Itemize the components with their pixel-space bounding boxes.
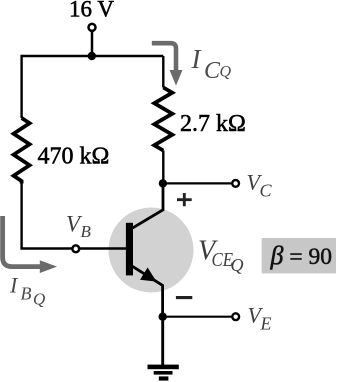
ground bar 2 (154, 371, 173, 375)
transistor emitter arrowhead (140, 268, 157, 282)
node VE terminal circle (232, 313, 239, 320)
ground bar 3 (159, 376, 169, 380)
svg-text:β = 90: β = 90 (270, 241, 332, 270)
svg-text:C: C (204, 58, 221, 84)
svg-text:16 V: 16 V (69, 0, 114, 22)
wire base horizontal (22, 247, 127, 248)
wire supply stub (91, 31, 94, 56)
svg-text:B: B (81, 222, 92, 241)
svg-text:B: B (21, 284, 32, 304)
node emitter junction (159, 313, 167, 321)
transistor base bar (126, 223, 133, 276)
wire top horizontal (22, 55, 164, 57)
supply terminal circle (89, 24, 96, 31)
wire VC horizontal (163, 182, 231, 184)
svg-text:2.7 kΩ: 2.7 kΩ (180, 111, 246, 137)
wire left vertical upper (20, 55, 22, 118)
beta box (262, 238, 336, 273)
wire collector vertical (132, 183, 163, 228)
node VC terminal circle (232, 180, 239, 187)
svg-text:Q: Q (33, 290, 45, 309)
wire left vertical lower (20, 184, 22, 249)
wire emitter to ground (161, 317, 164, 366)
resistor RB 470k zigzag (14, 118, 30, 184)
svg-text:Q: Q (220, 64, 232, 81)
plus sign (177, 193, 192, 206)
wire VE horizontal (163, 316, 232, 318)
transistor emitter line (132, 266, 163, 317)
transistor Q1 body circle (109, 208, 194, 293)
current arrow ICQ (152, 43, 176, 72)
minus sign (176, 296, 192, 299)
wire right vertical upper (162, 56, 164, 88)
node supply junction (88, 52, 96, 60)
wire right vertical to collector node (162, 151, 164, 184)
node VB terminal circle (72, 245, 79, 252)
node collector junction (159, 179, 167, 187)
svg-text:470 kΩ: 470 kΩ (38, 144, 110, 170)
ground bar 1 (148, 365, 179, 370)
svg-text:C: C (260, 181, 273, 201)
svg-text:E: E (260, 314, 272, 334)
resistor RC 2.7k zigzag (154, 88, 172, 151)
current arrow IBQ (3, 216, 41, 267)
svg-text:Q: Q (231, 255, 244, 275)
